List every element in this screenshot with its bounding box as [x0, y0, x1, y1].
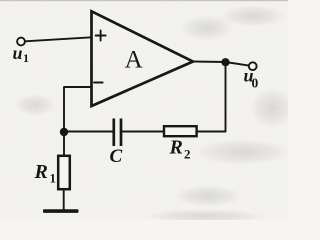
op-amp A triangle — [92, 11, 194, 106]
capacitor C — [114, 119, 121, 147]
wire node to R1 — [63, 132, 65, 156]
svg-text:2: 2 — [184, 147, 191, 162]
wire to output terminal u0 — [226, 62, 249, 66]
output terminal u0 — [249, 62, 257, 70]
wire op-amp output — [193, 60, 226, 63]
wire capacitor to R2 — [122, 131, 163, 133]
op-amp + input mark — [96, 31, 106, 41]
resistor R2 — [164, 126, 197, 136]
input terminal u1 — [17, 38, 25, 46]
label u0 — [244, 66, 259, 91]
svg-text:R: R — [169, 137, 183, 159]
ground — [43, 209, 79, 213]
svg-text:u: u — [13, 43, 23, 63]
node output junction — [221, 58, 229, 66]
label u1 — [13, 43, 30, 65]
svg-text:A: A — [125, 47, 143, 74]
svg-text:1: 1 — [50, 171, 57, 186]
wire R2 to corner — [197, 62, 226, 132]
svg-text:1: 1 — [23, 51, 29, 65]
op-amp - input mark — [94, 82, 103, 84]
label R1 — [34, 161, 57, 186]
svg-text:C: C — [110, 146, 123, 167]
svg-text:R: R — [34, 161, 48, 183]
wire input u1 to + — [25, 37, 92, 41]
resistor R1 — [58, 156, 70, 189]
svg-text:0: 0 — [252, 76, 259, 91]
wire feedback from - input — [64, 87, 92, 132]
node feedback junction — [60, 128, 68, 136]
wire node to capacitor — [64, 131, 113, 133]
label R2 — [169, 137, 191, 162]
wire R1 to ground — [63, 189, 65, 210]
